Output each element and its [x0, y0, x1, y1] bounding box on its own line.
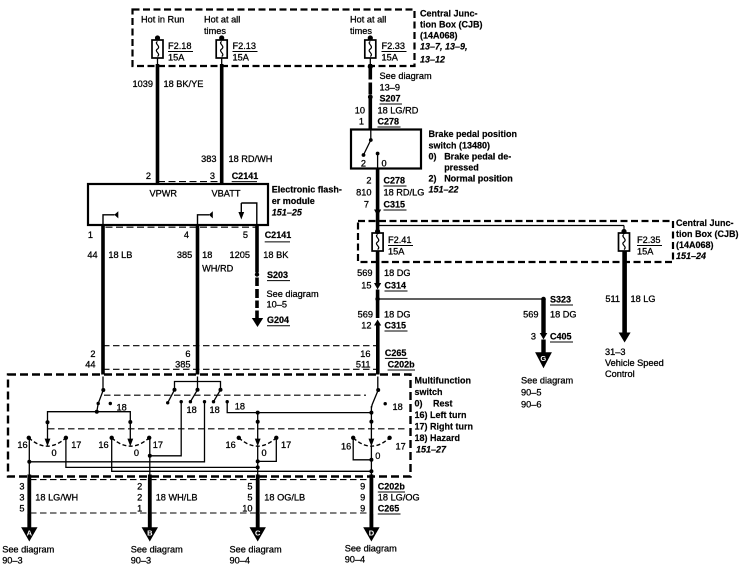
svg-text:16: 16 [226, 440, 236, 450]
label 31-3 Vehicle Speed Control [605, 347, 664, 379]
bus wire feeding arc1 and arc2 centers [48, 412, 131, 440]
svg-text:3: 3 [19, 493, 24, 503]
node junction arc3 feed [256, 411, 260, 415]
node junction to S323 [375, 297, 380, 302]
connector C202b label [388, 360, 416, 371]
wire junction to S323 splice [378, 298, 544, 300]
svg-text:17) Right turn: 17) Right turn [415, 422, 474, 432]
svg-text:10–5: 10–5 [267, 300, 287, 310]
node junction arc3 17 link [256, 459, 260, 463]
svg-text:16: 16 [341, 442, 351, 452]
svg-text:C278: C278 [384, 176, 406, 186]
wire arc3 terminal 17 link [258, 438, 277, 462]
svg-text:5: 5 [243, 230, 248, 240]
svg-text:18: 18 [117, 403, 127, 413]
title Electronic flasher module 151-25 [272, 185, 342, 218]
svg-text:Electronic flash-: Electronic flash- [272, 185, 342, 195]
pin labels output C [242, 482, 252, 514]
label S323 [550, 295, 573, 306]
svg-text:17: 17 [396, 442, 406, 452]
wire S323 junction down to C265 connector (circuit 569/511) [376, 299, 380, 318]
svg-text:0): 0) [429, 152, 437, 162]
svg-text:5: 5 [247, 482, 252, 492]
connector C202b label (output D) [378, 482, 406, 493]
switch blade 5 (from circuit 511) [371, 377, 380, 409]
wire arc4 terminal 16 link [353, 438, 371, 460]
label See diagram 90-4 (C) [230, 545, 282, 566]
svg-text:18: 18 [393, 402, 403, 412]
svg-text:12: 12 [361, 321, 371, 331]
comb feed from circuit 385 [175, 377, 221, 390]
svg-text:Vehicle Speed: Vehicle Speed [605, 358, 664, 368]
connector C314 arrow on wire [374, 283, 381, 290]
flasher internal output symbol pin 5 [238, 203, 256, 225]
node linkage dot arc1 feed [46, 420, 50, 424]
svg-text:See diagram: See diagram [267, 289, 319, 299]
node junction output A bus [27, 460, 31, 464]
wire F2.18 to flasher pin 2 (circuit 1039 18 BK/YE) [156, 64, 160, 184]
svg-text:C315: C315 [385, 321, 407, 331]
svg-text:18 LG/WH: 18 LG/WH [35, 493, 78, 503]
svg-text:S203: S203 [267, 270, 288, 280]
fuse F2.13 [216, 35, 227, 64]
switch blade 3 [189, 388, 200, 404]
svg-text:2: 2 [137, 482, 142, 492]
svg-text:F2.18: F2.18 [168, 41, 192, 51]
svg-text:18 LG: 18 LG [631, 294, 656, 304]
wire C315 to multifunction switch [376, 326, 380, 375]
svg-text:90–4: 90–4 [230, 556, 250, 566]
svg-text:1205: 1205 [230, 250, 250, 260]
ground G204 arrow [252, 318, 263, 327]
svg-text:18 LG/RD: 18 LG/RD [378, 106, 419, 116]
arrow to vehicle speed control [619, 333, 631, 343]
splice S207 node [368, 95, 373, 100]
label See diagram 90-3 (B) [131, 545, 183, 566]
svg-text:511: 511 [356, 360, 371, 370]
wire output C vertical [257, 446, 259, 476]
svg-text:times: times [350, 26, 372, 36]
svg-text:WH/RD: WH/RD [202, 264, 233, 274]
arc switch 2 [110, 436, 152, 447]
svg-text:Hot at all: Hot at all [350, 15, 386, 25]
svg-text:(14A068): (14A068) [676, 240, 714, 250]
svg-text:18: 18 [202, 250, 212, 260]
svg-text:13–12: 13–12 [420, 55, 445, 65]
connector C315 arrow on wire [374, 210, 381, 217]
wire output B vertical from arc2 terminal 17 [149, 438, 151, 476]
wire C405 to ground arrow [541, 340, 545, 355]
svg-text:18 RD/WH: 18 RD/WH [229, 154, 273, 164]
node linkage dot arc3 feed [256, 420, 260, 424]
svg-text:9: 9 [360, 504, 365, 514]
pin labels output B [137, 482, 142, 514]
arrow into arc3 center [255, 439, 261, 447]
arrow into arc4 center [369, 439, 375, 447]
svg-text:See diagram: See diagram [521, 376, 573, 386]
bottom connector dashed line lower [30, 512, 370, 514]
svg-text:90–4: 90–4 [345, 555, 365, 565]
svg-text:Normal position: Normal position [444, 174, 513, 184]
svg-text:6: 6 [185, 349, 190, 359]
svg-text:2: 2 [361, 159, 366, 169]
connector dashed line C2141 bottom [106, 226, 257, 228]
label 18 WH/RD [202, 250, 233, 274]
svg-text:Central Junc-: Central Junc- [420, 9, 478, 19]
svg-text:Central Junc-: Central Junc- [676, 218, 734, 228]
svg-text:0): 0) [415, 399, 423, 409]
connector C265 label (output D) [378, 504, 401, 515]
contact 18 terminal of blade 4 with bus to arc feeds [226, 400, 372, 413]
svg-text:31–3: 31–3 [605, 347, 625, 357]
svg-text:90–3: 90–3 [131, 556, 151, 566]
svg-text:C314: C314 [385, 281, 407, 291]
svg-text:511: 511 [605, 294, 620, 304]
svg-text:18 DG: 18 DG [384, 268, 411, 278]
svg-text:pressed: pressed [444, 163, 479, 173]
svg-text:C265: C265 [385, 348, 407, 358]
svg-text:See diagram: See diagram [131, 545, 183, 555]
svg-text:F2.41: F2.41 [388, 235, 412, 245]
svg-text:VPWR: VPWR [150, 189, 178, 199]
arrow into arc2 center [127, 439, 133, 447]
svg-text:18: 18 [187, 405, 197, 415]
svg-text:151–25: 151–25 [272, 208, 303, 218]
brake pedal position switch box [351, 130, 421, 169]
connector C405 label [550, 332, 573, 343]
brake switch blade [362, 130, 373, 157]
label S203 [267, 270, 290, 281]
svg-text:151–22: 151–22 [429, 184, 459, 194]
output arrow A [21, 514, 37, 542]
svg-text:7: 7 [364, 200, 369, 210]
wire arc2 terminal 16 link bus [112, 438, 372, 472]
svg-text:C265: C265 [378, 504, 400, 514]
svg-text:18 DG: 18 DG [384, 310, 411, 320]
wire S323 down (circuit 569 18 DG) [541, 299, 545, 333]
splice S323 node [541, 297, 546, 302]
svg-text:2: 2 [137, 493, 142, 503]
svg-text:3: 3 [19, 482, 24, 492]
svg-text:1039: 1039 [133, 79, 153, 89]
label G204 [267, 315, 290, 326]
output arrow D [363, 514, 379, 542]
node junction output B and blade2 18 terminal [148, 454, 152, 458]
wire brake switch to CJB fuse F2.41 (circuit 810 18 RD/LG) [376, 169, 380, 232]
svg-text:17: 17 [153, 440, 163, 450]
svg-text:9: 9 [360, 493, 365, 503]
svg-text:Rest: Rest [433, 399, 453, 409]
node linkage dot arc4 feed [369, 420, 373, 424]
splice S203 node [255, 272, 259, 276]
svg-text:16: 16 [98, 440, 108, 450]
svg-text:A: A [27, 529, 33, 538]
fuse F2.18 [152, 35, 163, 64]
Central Junction Box (CJB) lower dashed box 151-24 [358, 221, 673, 262]
svg-text:90–6: 90–6 [521, 400, 541, 410]
connector C315 label [384, 200, 407, 211]
flasher internal contact symbol pin 4 [198, 211, 213, 224]
svg-text:2: 2 [90, 349, 95, 359]
label See diagram 13-9 [380, 71, 432, 93]
arc switch 4 [351, 436, 392, 447]
svg-text:C278: C278 [378, 117, 400, 127]
svg-text:Control: Control [605, 369, 635, 379]
svg-text:C315: C315 [384, 200, 406, 210]
wire output A vertical from arc1 terminal 16 [28, 438, 30, 476]
svg-text:1: 1 [137, 504, 142, 514]
svg-text:0: 0 [375, 451, 380, 461]
svg-text:tion Box (CJB): tion Box (CJB) [676, 229, 739, 239]
value label F2.41 15A [388, 235, 413, 257]
output wires through bottom connector [29, 475, 371, 515]
svg-text:F2.35: F2.35 [637, 235, 661, 245]
open contact 18 (blade 1) [109, 402, 112, 405]
connector C265 label [385, 348, 408, 358]
arc switch 3 [237, 436, 279, 447]
label See diagram 90-3 (A) [2, 545, 54, 566]
value label F2.33 15A [382, 41, 407, 63]
label See diagram 10-5 [267, 289, 319, 310]
svg-text:151–24: 151–24 [676, 251, 706, 261]
connector C315 label (lower) [385, 321, 408, 332]
wire flasher pin 1 to multifunction switch (circuit 44 18 LB) [101, 226, 105, 375]
svg-text:15A: 15A [233, 53, 250, 63]
Central Junction Box (CJB) top dashed box [133, 10, 415, 67]
svg-text:18 BK: 18 BK [263, 250, 289, 260]
svg-text:er module: er module [272, 196, 315, 206]
svg-text:18 BK/YE: 18 BK/YE [164, 79, 204, 89]
flasher internal contact symbol pin 1 [103, 211, 118, 224]
wire F2.35 down (circuit 511 18 LG) [622, 251, 627, 334]
svg-text:1: 1 [88, 230, 93, 240]
node junction arc3 output [256, 465, 260, 469]
svg-text:44: 44 [85, 360, 95, 370]
svg-text:569: 569 [358, 310, 373, 320]
svg-text:16: 16 [360, 349, 370, 359]
svg-text:B: B [147, 529, 153, 538]
wire arc4 center feed [370, 406, 372, 440]
connector C2141 (flasher bottom) [265, 230, 292, 242]
svg-text:3: 3 [531, 332, 536, 342]
svg-text:385: 385 [175, 360, 190, 370]
contact 18 terminal of blade 3 wire to output A bus [29, 400, 206, 462]
svg-text:1: 1 [359, 117, 364, 127]
fuse F2.33 [365, 35, 376, 64]
wire dashed segments to ground [255, 278, 259, 319]
label See diagram 90-5 90-6 [521, 376, 573, 410]
electronic flasher module box [88, 184, 268, 225]
svg-text:tion Box (CJB): tion Box (CJB) [420, 20, 483, 30]
svg-text:18 RD/LG: 18 RD/LG [384, 188, 425, 198]
svg-text:4: 4 [184, 230, 189, 240]
connector C278 label top [378, 117, 401, 128]
svg-text:90–5: 90–5 [521, 388, 541, 398]
svg-text:17: 17 [71, 440, 81, 450]
svg-text:G: G [540, 354, 546, 363]
fuse F2.41 [372, 229, 383, 251]
svg-text:2: 2 [366, 176, 371, 186]
title Central Junction Box (CJB) (14A068) 151-24 [676, 218, 739, 261]
svg-text:0: 0 [52, 448, 57, 458]
svg-text:C2141: C2141 [232, 171, 259, 181]
wire arc3 center feed [257, 413, 259, 440]
switch blade 4 [212, 388, 223, 404]
connector C278 label bottom [384, 176, 407, 187]
svg-text:(14A068): (14A068) [420, 31, 458, 41]
wire output D vertical [370, 446, 372, 476]
svg-text:151–27: 151–27 [416, 445, 447, 455]
svg-text:Multifunction: Multifunction [415, 376, 471, 386]
connector C315 arrow on wire (lower) [374, 320, 381, 326]
connector C405 arrow on wire [540, 333, 548, 340]
svg-text:Hot at all: Hot at all [204, 15, 240, 25]
connector C2141 (flasher top) [232, 171, 259, 182]
svg-text:0: 0 [134, 448, 139, 458]
svg-text:Brake pedal de-: Brake pedal de- [444, 152, 511, 162]
svg-text:18 DG: 18 DG [550, 310, 577, 320]
multifunction switch dashed box [8, 375, 411, 477]
svg-text:C2141: C2141 [265, 230, 292, 240]
svg-text:5: 5 [247, 493, 252, 503]
switch blade 1 (from circuit 44) [95, 377, 106, 414]
switch blade 2 [166, 388, 177, 405]
svg-text:18 LG/OG: 18 LG/OG [378, 493, 420, 503]
svg-text:switch (13480): switch (13480) [429, 140, 491, 150]
svg-text:3: 3 [210, 171, 215, 181]
title Brake pedal position switch (13480) [429, 129, 518, 194]
title Multifunction switch legend [415, 376, 474, 455]
svg-text:2: 2 [146, 171, 151, 181]
svg-text:C: C [255, 529, 261, 538]
node junction arc4 output [369, 469, 373, 473]
svg-text:C202b: C202b [378, 482, 406, 492]
svg-text:18 LB: 18 LB [108, 250, 132, 260]
svg-text:VBATT: VBATT [212, 189, 241, 199]
title Central Junction Box (CJB) (14A068) [420, 9, 483, 65]
wire arc1 terminal 17 link bus [66, 438, 258, 468]
svg-text:18 WH/LB: 18 WH/LB [156, 493, 198, 503]
svg-text:569: 569 [523, 310, 538, 320]
node junction arc4 feed [369, 411, 373, 415]
svg-text:810: 810 [356, 188, 371, 198]
svg-text:18: 18 [210, 405, 220, 415]
svg-text:Hot in Run: Hot in Run [141, 15, 184, 25]
svg-text:F2.13: F2.13 [233, 41, 257, 51]
svg-text:18 OG/LB: 18 OG/LB [264, 493, 305, 503]
svg-text:Brake pedal position: Brake pedal position [429, 129, 518, 139]
arrow into arc1 center [45, 439, 51, 447]
svg-text:D: D [369, 529, 375, 538]
svg-text:16) Left turn: 16) Left turn [415, 410, 467, 420]
svg-text:15A: 15A [388, 247, 405, 257]
fuse F2.35 [619, 226, 630, 252]
pin labels output D [360, 482, 365, 514]
svg-text:2): 2) [429, 174, 437, 184]
inner dashed line lower [48, 428, 407, 430]
svg-text:17: 17 [281, 440, 291, 450]
pin labels output A [19, 482, 24, 514]
output arrow B [142, 514, 158, 542]
svg-text:G204: G204 [267, 315, 289, 325]
svg-text:See diagram: See diagram [230, 545, 282, 555]
svg-text:569: 569 [357, 268, 372, 278]
open contact 18 (blade 5) [384, 402, 387, 405]
inner dashed line upper [104, 394, 366, 396]
wire flasher pin 5 ground lead (circuit 1205 18 BK) [255, 226, 259, 273]
svg-text:44: 44 [87, 250, 97, 260]
wire F2.13 to flasher pin 3 (circuit 383 18 RD/WH) [220, 64, 224, 184]
wire F2.41 down (circuit 569 18 DG) [376, 251, 380, 283]
wire flasher pin 4 to multifunction switch (circuit 385 18 WH/RD) [196, 226, 200, 375]
svg-text:S207: S207 [380, 94, 401, 104]
wire F2.33 to brake switch (circuit 10/18 LG/RD) [368, 64, 373, 130]
svg-text:90–3: 90–3 [2, 556, 22, 566]
svg-text:switch: switch [415, 387, 443, 397]
svg-text:15A: 15A [382, 53, 399, 63]
contact 18 terminal of blade 2 wire to output B [150, 400, 183, 456]
wire C314 to junction [376, 290, 380, 300]
svg-text:F2.33: F2.33 [382, 41, 406, 51]
label See diagram 90-4 (D) [345, 544, 397, 565]
svg-text:0: 0 [382, 159, 387, 169]
svg-text:18: 18 [235, 402, 245, 412]
svg-text:0: 0 [262, 448, 267, 458]
svg-text:See diagram: See diagram [345, 544, 397, 554]
svg-text:15A: 15A [168, 53, 185, 63]
output arrow C [250, 514, 266, 542]
svg-text:10: 10 [355, 106, 365, 116]
arc switch 1 [27, 436, 69, 447]
svg-text:385: 385 [177, 250, 192, 260]
svg-text:13–9: 13–9 [380, 83, 400, 93]
value label F2.13 15A [233, 41, 258, 63]
value label F2.35 15A [637, 235, 662, 257]
svg-text:10: 10 [242, 504, 252, 514]
CJB internal bus wire [378, 225, 624, 227]
svg-text:S323: S323 [550, 295, 571, 305]
svg-text:5: 5 [19, 504, 24, 514]
bottom connector dashed line upper [30, 479, 371, 481]
node linkage dot arc2 feed [128, 420, 132, 424]
svg-text:16: 16 [17, 440, 27, 450]
in-line connector C265/C202b dashed lines [103, 346, 378, 370]
svg-text:13–7, 13–9,: 13–7, 13–9, [420, 42, 468, 52]
label S207 [380, 94, 403, 105]
connector dashed line C2141 top [158, 181, 222, 183]
value label F2.18 15A [168, 41, 193, 63]
svg-text:18) Hazard: 18) Hazard [415, 433, 461, 443]
connector C314 label [385, 281, 408, 292]
svg-text:C405: C405 [550, 332, 572, 342]
svg-text:C202b: C202b [388, 360, 416, 370]
svg-text:See diagram: See diagram [2, 545, 54, 555]
node junction arc4 16 link [369, 458, 373, 462]
svg-text:383: 383 [201, 154, 216, 164]
svg-text:9: 9 [360, 482, 365, 492]
svg-text:15A: 15A [637, 247, 654, 257]
svg-text:15: 15 [361, 281, 371, 291]
svg-text:times: times [204, 26, 226, 36]
brake switch contact 0 [376, 152, 380, 169]
ground arrow G (to diagram 90-5/90-6) [535, 352, 552, 368]
svg-text:See diagram: See diagram [380, 71, 432, 81]
